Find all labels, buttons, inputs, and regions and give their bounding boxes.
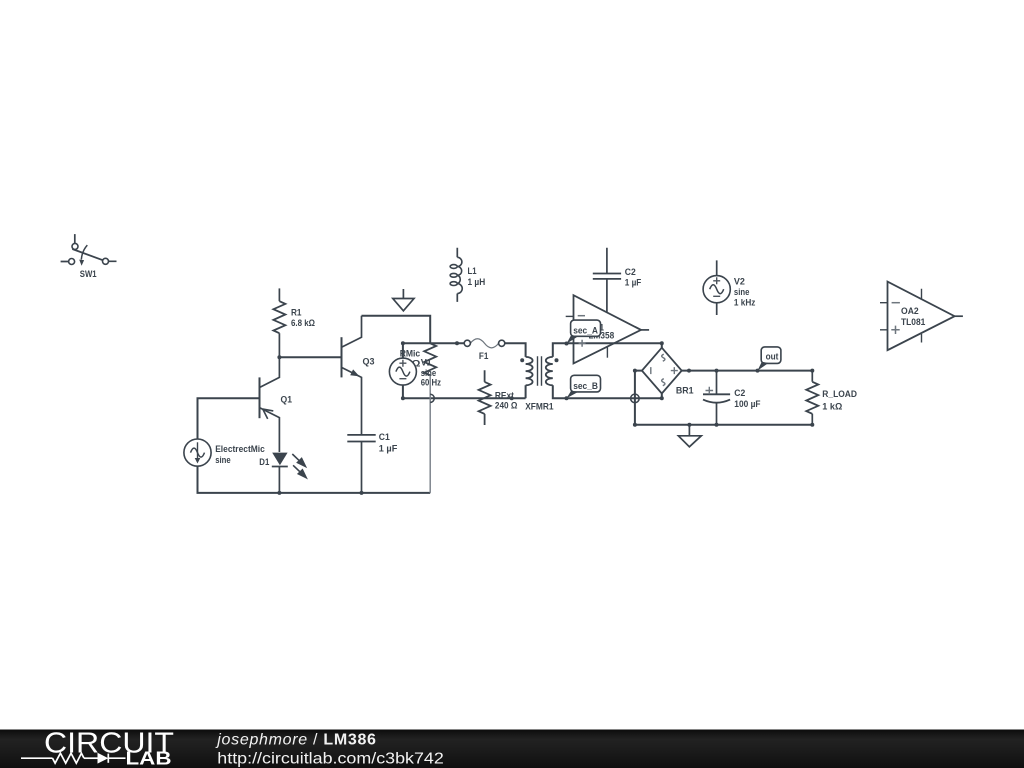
svg-text:sec_A: sec_A [573, 326, 598, 337]
svg-text:1 µH: 1 µH [468, 277, 486, 288]
svg-text:V2: V2 [734, 277, 745, 288]
svg-text:1 kΩ: 1 kΩ [822, 401, 842, 412]
svg-text:C2: C2 [734, 388, 745, 399]
svg-text:C1: C1 [379, 432, 391, 443]
svg-text:100 µF: 100 µF [734, 399, 760, 410]
svg-text:240 Ω: 240 Ω [495, 400, 518, 411]
svg-text:V1: V1 [421, 357, 433, 368]
svg-text:6.8 kΩ: 6.8 kΩ [291, 318, 315, 329]
svg-text:out: out [766, 352, 779, 363]
svg-text:ElectrectMic: ElectrectMic [215, 444, 265, 455]
svg-text:http://circuitlab.com/c3bk742: http://circuitlab.com/c3bk742 [217, 751, 444, 768]
svg-text:60 Hz: 60 Hz [421, 377, 441, 388]
svg-text:Q3: Q3 [363, 357, 375, 368]
svg-text:sine: sine [215, 455, 231, 466]
svg-text:1 kHz: 1 kHz [734, 298, 756, 309]
svg-text:F1: F1 [479, 351, 489, 362]
svg-text:OA2: OA2 [901, 306, 919, 317]
svg-text:TL081: TL081 [901, 317, 926, 328]
svg-text:Q1: Q1 [281, 395, 293, 406]
svg-text:R_LOAD: R_LOAD [822, 389, 857, 400]
svg-text:josephmore / LM386: josephmore / LM386 [215, 732, 376, 749]
svg-text:R1: R1 [291, 308, 302, 319]
svg-text:1 µF: 1 µF [379, 444, 398, 455]
svg-text:XFMR1: XFMR1 [525, 401, 554, 412]
svg-text:sine: sine [734, 287, 750, 298]
svg-text:BR1: BR1 [676, 386, 694, 397]
svg-text:LAB: LAB [126, 748, 172, 768]
svg-text:C2: C2 [625, 267, 636, 278]
svg-text:SW1: SW1 [80, 269, 97, 280]
svg-text:1 µF: 1 µF [625, 278, 642, 289]
svg-text:D1: D1 [259, 457, 270, 468]
svg-text:sec_B: sec_B [573, 381, 598, 392]
svg-text:L1: L1 [468, 266, 478, 277]
